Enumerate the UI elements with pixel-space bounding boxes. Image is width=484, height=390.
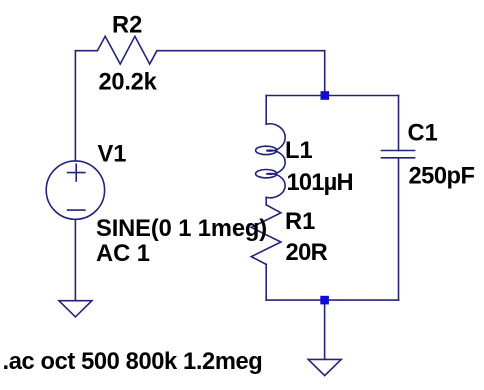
inductor L1	[256, 124, 286, 198]
wire	[324, 300, 326, 359]
resistor R2	[75, 36, 324, 64]
svg-text:SINE(0 1 1meg): SINE(0 1 1meg)	[96, 216, 267, 242]
ground (left, V1)	[59, 301, 92, 317]
svg-text:R1: R1	[285, 209, 315, 235]
wire	[266, 95, 398, 97]
capacitor C1	[382, 96, 415, 301]
ground (right, bottom rail)	[308, 359, 341, 375]
voltage source V1	[46, 161, 104, 219]
svg-text:C1: C1	[408, 120, 438, 146]
wire	[265, 264, 267, 300]
wire	[324, 51, 326, 96]
wire	[265, 197, 267, 204]
svg-text:20.2k: 20.2k	[99, 70, 158, 96]
wire	[74, 219, 76, 300]
svg-text:AC 1: AC 1	[96, 241, 150, 267]
node junction J1 (top)	[321, 91, 330, 100]
svg-text:L1: L1	[285, 138, 313, 164]
resistor R1	[251, 205, 281, 265]
svg-text:R2: R2	[112, 13, 142, 39]
wire	[265, 96, 267, 125]
svg-text:250pF: 250pF	[409, 164, 475, 190]
node junction J2 (bottom)	[320, 296, 329, 305]
svg-text:20R: 20R	[286, 240, 328, 266]
svg-text:V1: V1	[98, 142, 127, 168]
svg-text:101µH: 101µH	[287, 170, 353, 196]
svg-text:.ac oct 500 800k 1.2meg: .ac oct 500 800k 1.2meg	[3, 349, 263, 375]
wire	[266, 299, 398, 301]
wire	[74, 51, 76, 161]
